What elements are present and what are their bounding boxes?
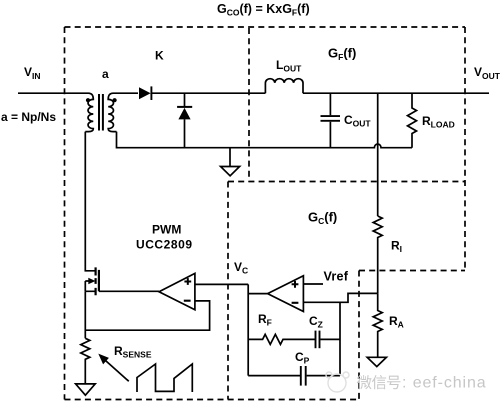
svg-text:VC: VC (234, 260, 248, 276)
ground output return (221, 148, 240, 176)
svg-text:a = Np/Ns: a = Np/Ns (1, 110, 56, 124)
dashed box Gc left edge (227, 182, 229, 400)
wire Vin input line (18, 92, 89, 94)
wire error amp output to Vc node (248, 293, 267, 295)
wire gate to comparator output (99, 290, 159, 292)
dashed box Gco top edge (65, 26, 466, 28)
transistor Q1 mosfet (85, 267, 99, 295)
watermark text weixinhao eef-china (357, 375, 401, 389)
svg-text:RLOAD: RLOAD (422, 114, 455, 130)
transformer secondary polarity dot (113, 98, 117, 102)
svg-text:CP: CP (295, 350, 310, 366)
dashed box Gco right edge (464, 27, 466, 271)
error amplifier U2 (268, 276, 304, 312)
svg-text:RSENSE: RSENSE (114, 344, 152, 360)
resistor Rload (408, 93, 417, 148)
svg-text:RI: RI (391, 239, 402, 255)
capacitor Cp (248, 366, 340, 386)
comparator U1 (159, 273, 195, 309)
resistor Rf (248, 334, 315, 344)
svg-text:GF(f): GF(f) (328, 46, 356, 63)
svg-text:CZ: CZ (309, 314, 323, 330)
svg-text:Vref: Vref (324, 270, 349, 284)
capacitor Cz (316, 331, 341, 349)
node Vc vertical (247, 284, 249, 375)
transformer T1 core (99, 94, 103, 131)
svg-text:LOUT: LOUT (276, 58, 302, 74)
wire rectifier to Lout (151, 92, 266, 94)
svg-text:GC(f): GC(f) (308, 210, 337, 227)
resistor Ra (373, 293, 382, 357)
svg-text:GCO(f) = KxGF(f): GCO(f) = KxGF(f) (217, 2, 310, 18)
wire feedback network vertical (339, 302, 341, 375)
dashed box Gc top edge (228, 181, 465, 183)
svg-text:RA: RA (389, 314, 404, 330)
resistor Rsense (81, 338, 90, 384)
svg-text:UCC2809: UCC2809 (136, 237, 193, 251)
wire Vref input (303, 283, 323, 285)
dashed box Gc right edge (358, 271, 360, 400)
ground below Ra (367, 357, 386, 366)
svg-text:COUT: COUT (344, 113, 371, 129)
svg-text:a: a (102, 67, 109, 81)
transformer T1 secondary winding (108, 93, 116, 131)
wire mosfet source down to Rsense (84, 291, 86, 338)
capacitor Cout (321, 93, 341, 148)
svg-text:VOUT: VOUT (474, 65, 500, 81)
rectifier diode D1 (139, 86, 151, 100)
resistor Ri (373, 216, 382, 293)
wire Vout feedback to Ri (377, 93, 379, 216)
wire Ri Ra junction to error amp minus (303, 293, 377, 302)
wire primary return to mosfet drain (85, 132, 95, 271)
wire comparator minus feedback to source (85, 301, 209, 330)
wire comparator plus input to Vc (195, 283, 248, 285)
inductor Lout (265, 79, 303, 94)
current sense waveform (137, 364, 192, 392)
ground below Rsense (76, 384, 96, 395)
dashed box Gco bottom edge (65, 399, 360, 401)
watermark logo (326, 372, 349, 392)
svg-text:RF: RF (258, 312, 272, 328)
wire secondary top to rectifier (113, 92, 138, 94)
wire secondary return rail with hop over Ri feed (117, 132, 413, 148)
svg-text:K: K (155, 49, 164, 63)
wire Lout to Vout (303, 92, 489, 94)
dashed box Gc notch bottom edge (359, 270, 465, 272)
svg-text:: eef-china: : eef-china (402, 375, 487, 392)
transformer primary polarity dot (86, 98, 90, 102)
svg-text:VIN: VIN (24, 65, 41, 81)
freewheeling diode D2 (177, 93, 192, 148)
annotation arrow to Rsense (98, 354, 129, 382)
transformer T1 primary winding (85, 93, 93, 131)
dashed separator between K and GF blocks (248, 28, 250, 182)
dashed box Gco left edge (64, 27, 66, 400)
svg-text:PWM: PWM (152, 223, 181, 237)
